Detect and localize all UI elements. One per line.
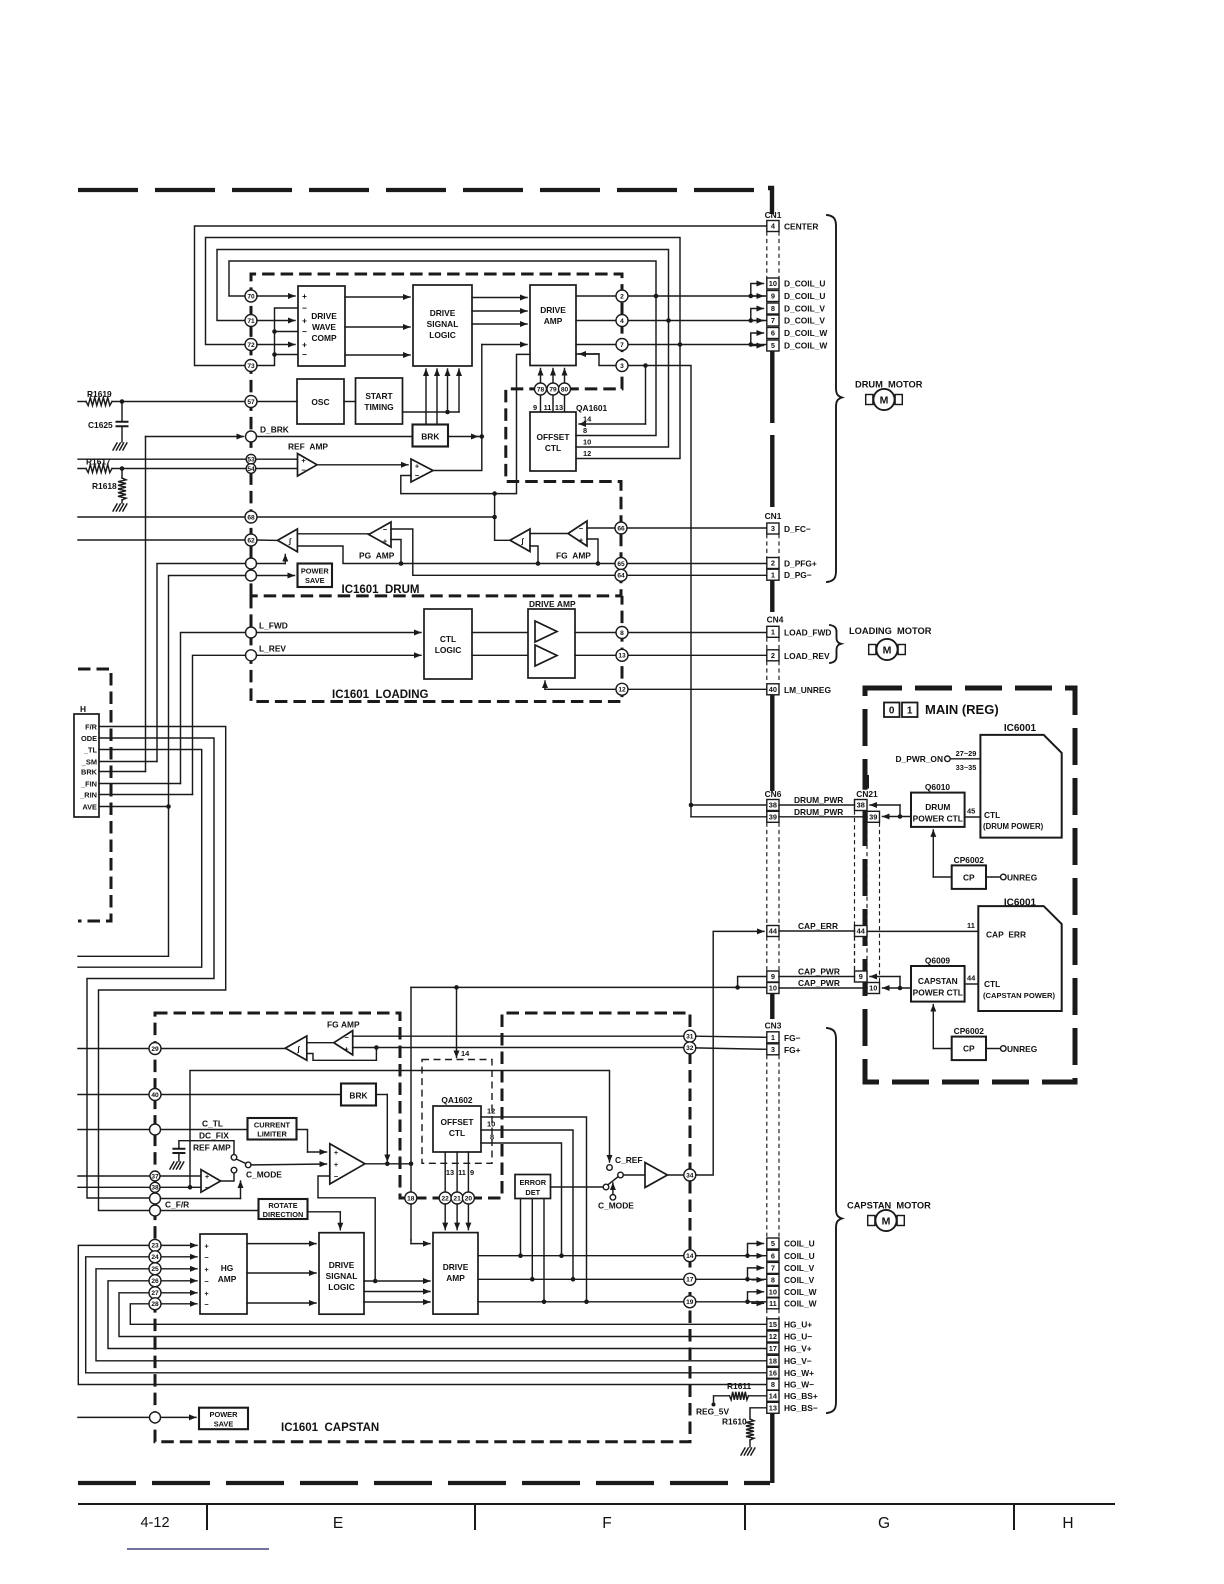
svg-text:2: 2 [771,559,775,568]
block CP6002 drum [952,865,986,889]
svg-text:IC6001: IC6001 [1004,723,1037,734]
wire D_BRK from mech controller [146,436,244,438]
wire schmitt ref input (capstan) [307,1048,377,1061]
QA1601 pin 8 wire [576,296,656,436]
wire HG AMP to DSL 2 [247,1272,316,1274]
wire start timing up arrow 1 [447,369,449,412]
IC pin 25 [161,1268,197,1270]
connector column thick segment below CN3 [770,1414,774,1484]
wire mech ODE to capstan C_MODE [87,738,214,1198]
IC pin 40 [149,1089,161,1101]
svg-text:HG: HG [221,1263,234,1273]
wire: wave comp to drive signal logic 3 [345,354,410,356]
wire pin25 loop to HG_V- [96,1269,767,1361]
IC1601 LOADING dashed boundary [251,596,622,702]
buffer triangle loading 1 [535,621,557,642]
wire CAP_PWR horizontal [411,986,767,988]
wire: pin72 into drive wave comp [257,344,295,346]
svg-text:18: 18 [769,1356,777,1365]
svg-text:38: 38 [151,1185,159,1192]
buffer amp C_REF [645,1163,667,1188]
svg-text:CP6002: CP6002 [954,1026,985,1036]
svg-text:D_COIL_V: D_COIL_V [784,304,825,314]
arrow into COIL_W pin11 [752,1302,764,1304]
svg-text:12: 12 [487,1107,495,1116]
arrow into drive amp right edge [579,353,599,355]
IC pin 65 [615,558,627,570]
junction dot drum power branch [689,803,694,808]
svg-text:REF AMP: REF AMP [288,442,328,452]
op-amp FG AMP (drum) [568,521,587,546]
svg-text:CP6002: CP6002 [954,855,985,865]
wire schmitt out to pin 62 [257,539,278,541]
wire PG plus tap [391,540,401,564]
wire pin26 loop to HG_V+ [108,1281,767,1349]
wire FG- to pin 31 [353,1035,684,1037]
svg-text:CP: CP [963,873,975,883]
svg-text:−: − [334,1172,339,1181]
wire pin24 loop to HG_W+ [86,1257,767,1373]
svg-text:+: + [334,1160,339,1169]
svg-text:12: 12 [769,1332,777,1341]
block BRK (drum) [413,425,449,447]
wire PG amp to schmitt [297,533,368,535]
CN6 pin 44 [767,926,779,937]
svg-text:_TL: _TL [83,745,98,754]
wire pin 64 row to CN1-1 [627,574,767,576]
wire BRK top to DSL arrow 2 [436,369,438,425]
wire LM_UNREG pin12 to CN4-40 [545,688,767,690]
svg-text:OSC: OSC [311,397,329,407]
wire pin 53 row [78,458,298,460]
svg-text:+: + [383,537,388,546]
svg-text:CN6: CN6 [765,789,782,799]
IC pin 73 [245,360,257,372]
wire CTL LOGIC to loading drive amp 1 [472,632,528,634]
wire start timing up arrow 2 [458,369,460,412]
IC pin 12 (loading) [616,683,628,695]
svg-text:7: 7 [771,1264,775,1273]
svg-text:53: 53 [247,457,255,464]
UNREG stub (drum) [986,876,1001,878]
wire CN6-10 to CN21-10 [779,987,867,989]
wire pin32 to CN3-3 [696,1048,767,1049]
IC pin 78 [540,369,542,396]
ground R1618 [113,504,117,511]
svg-text:13: 13 [555,403,563,412]
wire L_FWD to mech FIN line [181,633,246,784]
CN6 pin 38 [767,800,779,811]
ground C1625 [113,443,117,450]
svg-text:−: − [204,1253,209,1262]
svg-text:+: + [301,456,306,465]
IC pin 29 [149,1043,161,1055]
svg-text:AMP: AMP [446,1273,465,1283]
svg-text:CAP_PWR: CAP_PWR [798,978,840,988]
svg-text:11: 11 [544,403,552,412]
IC pin 17 [684,1273,696,1285]
svg-text:G: G [878,1515,890,1532]
wire CP6002 to Q6010 [933,876,951,878]
junction dot pin3 line to QA1601 pin14 [643,363,648,368]
arrow C_REF into switch [609,1155,611,1162]
IC1601 CAPSTAN dashed boundary [155,1013,690,1442]
CN3 pin 1 [767,1032,779,1043]
block CTL LOGIC [424,609,472,679]
svg-text:80: 80 [561,386,569,393]
svg-text:CTL: CTL [449,1128,465,1138]
block DRIVE WAVE COMP [298,286,345,366]
IC pin 70 [245,290,257,302]
wire FG plus tap [587,539,598,564]
wire: drive amp bottom output to pin 3 [576,354,691,817]
wire circle2 to mech AVE line [169,576,246,807]
svg-text:HG_V+: HG_V+ [784,1344,812,1354]
DC_FIX capacitor [179,1141,234,1155]
wire C_MODE to switch control [161,1198,241,1200]
comparator (drum brake) [411,459,433,482]
svg-text:SIGNAL: SIGNAL [326,1271,358,1281]
wire circle2 to power save [257,575,295,577]
wire mech SM [99,761,157,763]
CN21 pin 38 [855,800,868,811]
block OSC [297,379,344,424]
REG_5V supply [712,1403,716,1407]
junction R1618 [120,466,125,471]
svg-text:COIL_U: COIL_U [784,1239,815,1249]
wire switch2 common to buffer [623,1174,645,1176]
svg-text:9: 9 [771,292,775,301]
svg-text:26: 26 [151,1278,159,1285]
page bottom dashed border [78,1481,770,1485]
IC pin 4 [576,320,767,322]
ground R1610 [741,1448,745,1455]
wire pin 38 row [78,1186,201,1188]
IC pin 19 [684,1296,696,1308]
svg-text:5: 5 [771,341,775,350]
IC pin 27 [161,1292,197,1294]
UNREG stub (capstan) [986,1048,1001,1050]
block POWER SAVE (drum) [298,564,333,588]
svg-text:54: 54 [247,466,255,473]
svg-text:27~29: 27~29 [956,749,977,758]
wire current limiter to error amp [297,1130,308,1153]
wire ref amp to comparator [317,464,408,466]
connector column thick segment CN6 to CN3 [770,994,774,1020]
C_TL node circle [150,1124,161,1135]
switch C_MODE (ref/dcfix) contact A [231,1155,237,1161]
svg-text:POWER: POWER [301,567,330,576]
svg-text:LOAD_REV: LOAD_REV [784,651,830,661]
svg-text:CTL: CTL [984,979,1000,989]
wire mech BRK [99,771,146,773]
wire mech F/R to capstan C_F/R [99,727,226,1211]
svg-text:4: 4 [620,318,624,325]
wire R1619 to pin 57 [78,401,297,403]
wire loading out FWD to CN4-1 [575,632,767,634]
svg-text:14: 14 [686,1253,694,1260]
block HG AMP [200,1234,247,1314]
svg-text:8: 8 [583,426,587,435]
footer blue underline mark [127,1548,269,1550]
svg-text:1: 1 [771,1033,775,1042]
IC pin 54 [246,464,256,474]
block START TIMING [356,378,403,424]
arrow into COIL_W pin10 [748,1292,764,1302]
mech controller section dashed border (cut off) [78,669,111,921]
svg-text:F/R: F/R [85,722,98,731]
CN21 pin 9 [855,971,868,982]
IC pin 7 [576,344,767,346]
wire HG_BS- net [750,1408,767,1419]
svg-text:AMP: AMP [544,316,563,326]
svg-text:−: − [415,471,420,480]
connector CN21 thick stub [865,775,869,789]
svg-text:CTL: CTL [984,810,1000,820]
wire buffer to pin 34 [667,1174,683,1176]
ground DC_FIX [170,1162,174,1169]
wire BRK output to junction [448,436,478,438]
schmitt trigger (capstan FG) [285,1036,307,1060]
svg-text:COIL_V: COIL_V [784,1275,815,1285]
wire error det output to switch2 [551,1186,604,1188]
wire CN6-9 to CN21-9 [779,976,855,978]
svg-text:DET: DET [525,1188,540,1197]
wire pin 40 row to capstan BRK [78,1094,341,1096]
wire: feedback loop pin 70 to coil U line [229,261,656,296]
CAPSTAN MOTOR symbol [868,1216,875,1226]
svg-text:+: + [334,1148,339,1157]
connector column thick segment below CN1 coil pins [770,352,774,424]
svg-text:IC1601 DRUM: IC1601 DRUM [342,584,420,596]
svg-text:10: 10 [769,984,777,993]
svg-text:LOADING MOTOR: LOADING MOTOR [849,626,932,636]
svg-text:9: 9 [859,972,863,981]
wire L_FWD to CTL LOGIC [257,632,422,634]
op-amp REF AMP (capstan) [201,1170,221,1193]
svg-text:COIL_W: COIL_W [784,1299,817,1309]
svg-text:CN1: CN1 [765,511,782,521]
svg-text:ERROR: ERROR [519,1178,546,1187]
svg-text:CAP_ERR: CAP_ERR [798,921,838,931]
wire brake node to drive amp [481,345,483,437]
IC pin 62 [245,534,257,546]
svg-text:CENTER: CENTER [784,222,818,232]
junction C1625 [120,399,125,404]
power save tap circle 1 [246,558,257,569]
wire DSL to capstan drive amp 3 [364,1301,430,1303]
IC pin 38 [150,1182,160,1192]
svg-text:C_F/R: C_F/R [165,1200,189,1210]
svg-text:H: H [80,704,86,714]
svg-text:D_FC−: D_FC− [784,524,811,534]
svg-text:IC1601 LOADING: IC1601 LOADING [332,689,429,701]
CN4 pin 2 [767,650,779,661]
wire capstan drive out V [478,1278,767,1280]
switch common contact [245,1162,251,1168]
svg-text:+: + [415,462,420,471]
svg-text:DRIVE: DRIVE [443,1262,469,1272]
page top dashed border [78,188,770,192]
svg-text:C_TL: C_TL [202,1119,223,1129]
IC pin 13 (loading) [616,649,628,661]
svg-text:1: 1 [907,706,913,717]
svg-text:L_FWD: L_FWD [259,621,288,631]
svg-text:DC_FIX: DC_FIX [199,1131,229,1141]
svg-text:TIMING: TIMING [364,402,393,412]
wire pin27 loop to HG_U- [119,1293,767,1337]
CN6 pin 9 [767,971,779,982]
svg-text:CP: CP [963,1044,975,1054]
CN4 pin 1 [767,626,779,637]
svg-text:HG_W−: HG_W− [784,1380,814,1390]
svg-text:REF AMP: REF AMP [193,1143,231,1153]
svg-text:18: 18 [407,1195,415,1202]
footer tick 3 [744,1504,746,1530]
svg-text:OFFSET: OFFSET [440,1117,474,1127]
CN21 pin 10 [867,983,880,994]
IC1601 DRUM dashed boundary [251,274,622,596]
op-amp PG AMP [369,522,391,547]
svg-text:E: E [333,1515,343,1532]
CN3 pin 5 [767,1238,779,1249]
CN1 pin 1 [767,569,779,580]
IC pin 79 [552,369,554,396]
error amp (capstan) [330,1144,365,1184]
block BRK (capstan) [341,1084,376,1106]
svg-text:FG+: FG+ [784,1045,801,1055]
svg-text:OFFSET: OFFSET [536,432,570,442]
switch lever [237,1159,246,1163]
arrow pin12 into loading drive amp [544,681,546,689]
wire pin 37 row [78,1175,201,1177]
footer tick 2 [474,1504,476,1530]
svg-text:11: 11 [967,921,975,930]
svg-text:7: 7 [620,342,624,349]
svg-text:57: 57 [247,399,255,406]
IC pin 28 [161,1303,197,1305]
drum motor bracket [827,215,842,582]
svg-text:19: 19 [686,1299,694,1306]
IC pin 18 [405,1192,417,1204]
IC pin 21 [451,1192,463,1204]
wire switch common to error amp plus [251,1163,327,1166]
CN3 pin 15 [767,1319,779,1330]
CN3 pin 13 [767,1402,779,1413]
svg-text:C_MODE: C_MODE [598,1201,634,1211]
CN1 pin 3 [767,523,779,534]
svg-text:38: 38 [769,801,777,810]
svg-text:10: 10 [583,438,591,447]
wire comparator output to brake node [433,437,482,471]
CN3 pin 16 [767,1367,779,1378]
svg-text:CN1: CN1 [765,210,782,220]
svg-text:2: 2 [771,651,775,660]
svg-text:10: 10 [769,1287,777,1296]
svg-text:R1611: R1611 [727,1381,752,1391]
svg-text:16: 16 [769,1368,777,1377]
wire FG amp to schmitt [530,533,568,535]
IC6001 drum power chip [980,735,1061,838]
block POWER SAVE (capstan) [199,1408,248,1430]
CN3 pin 11 [767,1298,779,1309]
wire: wave comp to drive signal logic 1 [345,296,410,298]
svg-text:FG AMP: FG AMP [327,1020,360,1030]
CN4 pin 40 [767,684,779,695]
wire pin31 to CN3-1 [696,1036,767,1037]
wire schmitt ref input [297,546,615,564]
block DRIVE AMP (capstan) [433,1233,478,1315]
wire C_REF reference line [190,1071,610,1188]
wire to capstan power save block [161,1416,196,1418]
switch2 contact error det [603,1184,609,1190]
D_PWR_ON stub [945,756,951,762]
svg-text:−: − [344,1033,349,1042]
IC pin 71 [245,315,257,327]
wire pin 29 row [78,1048,285,1050]
wire pin 65 row to CN1-2 [627,563,767,565]
capstan motor bracket [827,1028,842,1413]
power save tap circle 2 [246,570,257,581]
CN6 strip dashed [767,823,779,926]
wire: wave comp to drive signal logic 2 [345,326,410,328]
block OFFSET CTL (QA1602) [433,1106,481,1152]
schmitt (FG path) [510,529,530,552]
svg-text:HG_V−: HG_V− [784,1356,812,1366]
svg-text:64: 64 [617,573,625,580]
svg-text:−: − [302,303,307,313]
L_REV node circle [246,650,257,661]
arrow into COIL_V pin8 [752,1279,764,1281]
wire FG schmitt ref input [530,546,538,564]
svg-text:C_MODE: C_MODE [246,1170,282,1180]
block OFFSET CTL (QA1601) [530,412,576,471]
pin 11 wire CAP_ERR into IC6001 [867,930,978,932]
svg-text:Q6009: Q6009 [925,956,950,966]
svg-text:CAP_PWR: CAP_PWR [798,967,840,977]
CN1 strip dashed gap [767,534,779,558]
svg-text:+: + [302,316,307,326]
CN21 pin 44 [855,926,868,937]
svg-text:SIGNAL: SIGNAL [427,319,459,329]
QA1601 pin 10 wire [576,321,669,448]
CN1 pin 6 [767,328,779,339]
svg-text:−: − [301,466,306,475]
wire mech FIN [99,783,181,785]
svg-text:D_COIL_W: D_COIL_W [784,341,827,351]
C_F/R node circle [150,1205,161,1216]
IC pin 23 [161,1244,197,1246]
wire pin 62 row [78,539,245,541]
footer tick 4 [1013,1504,1015,1530]
svg-text:44: 44 [857,927,866,936]
svg-text:9: 9 [771,972,775,981]
wire START TIMING to DSL [403,411,460,413]
block DRIVE SIGNAL LOGIC (capstan) [319,1233,364,1315]
svg-text:+: + [302,340,307,350]
svg-text:17: 17 [686,1277,694,1284]
wire rotate direction to DSL [308,1211,341,1213]
svg-text:3: 3 [771,524,775,533]
svg-text:CURRENT: CURRENT [254,1121,291,1130]
svg-text:15: 15 [769,1320,777,1329]
CN3 pin 8 [767,1274,779,1285]
wire QA1602 pin14 tap [456,987,458,1048]
wire C_F/R to rotate direction [161,1210,259,1212]
svg-text:66: 66 [617,525,625,532]
svg-text:40: 40 [151,1092,159,1099]
wire capstan drive out W [478,1301,767,1303]
